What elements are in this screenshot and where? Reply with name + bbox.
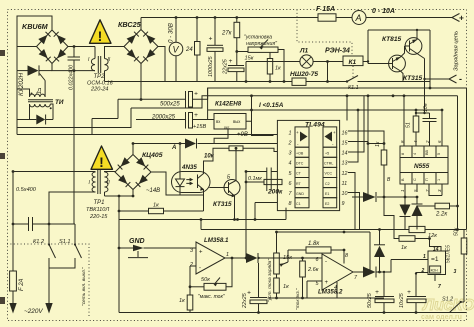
capacitor 2000x25 bbox=[186, 112, 199, 129]
node cap bottom bbox=[73, 69, 76, 72]
resistor 51 bbox=[413, 109, 419, 146]
resistor 10k bbox=[204, 146, 278, 168]
wire mains pole A bbox=[12, 172, 14, 305]
svg-text:6: 6 bbox=[289, 181, 292, 187]
wire L1 node down to shunt rail bbox=[327, 62, 329, 82]
svg-text:+: + bbox=[459, 13, 464, 23]
diode mid right bbox=[363, 192, 376, 202]
wire TI left rail bbox=[16, 71, 18, 135]
svg-text:50к: 50к bbox=[201, 277, 210, 283]
svg-text:КОН: КОН bbox=[431, 269, 439, 273]
svg-text:К142ЕН8: К142ЕН8 bbox=[215, 101, 242, 108]
svg-text:E2: E2 bbox=[325, 202, 329, 206]
resistor 1k opto bbox=[118, 208, 204, 213]
wire KBU6M left AC input bbox=[17, 46, 37, 48]
wire mains pole B vertical bbox=[73, 71, 75, 224]
svg-text:~220V: ~220V bbox=[24, 308, 43, 315]
wire pin7 gnd bbox=[285, 208, 287, 220]
capacitor 500x25 bbox=[186, 91, 199, 108]
IC N555 bbox=[400, 146, 448, 184]
svg-text:+15В: +15В bbox=[193, 124, 206, 130]
svg-text:+: + bbox=[333, 130, 336, 135]
relay K1 bbox=[343, 56, 368, 66]
resistor 1k gate bbox=[384, 197, 431, 241]
svg-text:4: 4 bbox=[413, 153, 417, 155]
svg-text:KBU6M: KBU6M bbox=[22, 22, 49, 31]
minus terminal bbox=[449, 74, 462, 84]
svg-text:16: 16 bbox=[342, 131, 348, 137]
wire KT815 emitter to minus bbox=[425, 59, 450, 114]
wire K1 to base net bbox=[368, 30, 430, 88]
transformer TP2 bbox=[91, 47, 124, 82]
svg-text:10н: 10н bbox=[423, 103, 429, 112]
svg-text:+: + bbox=[194, 91, 198, 98]
svg-text:4N35: 4N35 bbox=[181, 164, 197, 171]
opamp LM358.1 bbox=[118, 242, 246, 274]
svg-text:1к: 1к bbox=[153, 203, 159, 209]
svg-text:22х25: 22х25 bbox=[242, 292, 248, 309]
svg-text:+: + bbox=[375, 289, 379, 296]
wire KBC25 top to rail bbox=[140, 18, 142, 30]
svg-text:+9В: +9В bbox=[237, 132, 248, 138]
svg-text:1к: 1к bbox=[401, 245, 407, 251]
plus terminal bbox=[452, 13, 464, 23]
svg-text:ТР2: ТР2 bbox=[94, 74, 106, 80]
bridge rectifier KBU6M bbox=[37, 30, 69, 64]
transistor KT315 mid bbox=[209, 148, 240, 221]
wire pin14 up bbox=[348, 96, 364, 152]
svg-text:КУ202Н: КУ202Н bbox=[18, 72, 25, 96]
svg-text:TL494: TL494 bbox=[305, 122, 325, 129]
capacitor 1000x25 bbox=[207, 16, 223, 81]
wire N555 pin top left bbox=[403, 96, 405, 146]
svg-text:200к: 200к bbox=[267, 189, 283, 196]
bridge rectifier KC405 bbox=[115, 155, 151, 190]
wire KBU6M top loop bbox=[17, 16, 52, 71]
resistor 27k bbox=[234, 16, 240, 53]
node A dot bbox=[179, 142, 182, 145]
voltmeter V bbox=[169, 16, 183, 81]
wire gate pin14 bbox=[430, 239, 442, 252]
svg-text:3: 3 bbox=[190, 248, 193, 254]
svg-text:"сеть вкл. выкл.": "сеть вкл. выкл." bbox=[81, 267, 87, 306]
svg-text:2.2к: 2.2к bbox=[435, 212, 448, 218]
diode pair up bbox=[412, 197, 423, 230]
wire N555 right top bbox=[441, 110, 443, 146]
wire regulator in bbox=[208, 119, 215, 121]
capacitor 22x25 top bbox=[228, 52, 244, 82]
diode up right bbox=[374, 228, 385, 273]
switch S1.1 bbox=[49, 224, 82, 268]
wire pin16 net bbox=[348, 131, 384, 144]
wire regulator adj bbox=[214, 129, 228, 144]
wire LED cathode down bbox=[179, 187, 181, 195]
switch K1.1 bbox=[346, 76, 358, 83]
wire mains pole B down bbox=[48, 268, 50, 304]
resistor 10k bbox=[0, 0, 1, 1]
svg-text:1к: 1к bbox=[179, 298, 185, 304]
svg-text:LM358.1: LM358.1 bbox=[204, 237, 229, 244]
bottom left rail bbox=[119, 219, 286, 221]
svg-text:V: V bbox=[173, 45, 180, 55]
svg-text:КВС25: КВС25 bbox=[118, 20, 142, 29]
node TP1 top bbox=[12, 170, 15, 173]
diode lm2 out bbox=[353, 260, 391, 278]
svg-text:C1: C1 bbox=[296, 202, 301, 206]
svg-text:сам одел.ru: сам одел.ru bbox=[421, 314, 462, 321]
svg-text:51: 51 bbox=[406, 122, 412, 128]
diode row wire bbox=[352, 196, 417, 198]
wire pin15 net bbox=[348, 142, 384, 144]
wire KBC25 right vertex bbox=[158, 47, 165, 82]
svg-text:C2: C2 bbox=[325, 182, 330, 186]
svg-text:4: 4 bbox=[289, 161, 292, 167]
svg-text:13: 13 bbox=[342, 161, 348, 167]
wire bridge bottom to TP2 primary bbox=[52, 64, 95, 71]
svg-text:F 15А: F 15А bbox=[316, 6, 335, 13]
svg-text:4: 4 bbox=[334, 285, 337, 291]
svg-text:"ток зкз.": "ток зкз." bbox=[295, 288, 301, 310]
resistor 1.8k bbox=[288, 247, 345, 253]
svg-text:11: 11 bbox=[342, 181, 348, 187]
dotted link to relay area bbox=[297, 10, 352, 57]
wire pin2 net bbox=[189, 266, 191, 313]
svg-text:VCC: VCC bbox=[325, 172, 333, 176]
svg-text:8: 8 bbox=[345, 253, 348, 259]
svg-text:220-24: 220-24 bbox=[90, 87, 108, 93]
wire pin5 cap 0.1mk bbox=[246, 168, 277, 192]
svg-text:0.5х400: 0.5х400 bbox=[16, 187, 37, 193]
svg-text:-: - bbox=[199, 266, 201, 272]
svg-text:1: 1 bbox=[423, 254, 426, 260]
svg-text:+: + bbox=[407, 289, 411, 296]
wire gate pin1 bbox=[391, 259, 428, 261]
svg-text:рег.: рег. bbox=[224, 125, 230, 129]
svg-text:1к: 1к bbox=[283, 284, 289, 290]
fuse F2A bbox=[10, 271, 17, 291]
IC TL494 bbox=[277, 120, 339, 210]
svg-text:14: 14 bbox=[342, 151, 348, 157]
wire secondary net bbox=[105, 195, 134, 197]
svg-text:~14В: ~14В bbox=[146, 188, 160, 194]
svg-text:+: + bbox=[199, 250, 203, 256]
svg-text:14: 14 bbox=[433, 247, 439, 253]
arrow mains B bbox=[45, 303, 52, 314]
resistor 1k lm1 bbox=[187, 295, 193, 310]
svg-text:2: 2 bbox=[421, 268, 425, 274]
svg-text:КЦ405: КЦ405 bbox=[142, 152, 163, 159]
svg-text:2.6к: 2.6к bbox=[307, 267, 319, 273]
svg-text:DTC: DTC bbox=[296, 162, 304, 166]
vertical x370 bbox=[369, 232, 371, 272]
switch S1.2 bbox=[450, 301, 465, 313]
svg-text:1: 1 bbox=[437, 179, 441, 181]
wire gate pin2 bbox=[416, 273, 428, 274]
svg-text:2: 2 bbox=[288, 141, 292, 147]
resistor 24 bbox=[195, 16, 201, 81]
vertical x368 bbox=[367, 96, 369, 197]
capacitor 10x25 bbox=[407, 272, 426, 314]
svg-text:10к: 10к bbox=[204, 154, 215, 160]
svg-text:КТ315: КТ315 bbox=[213, 201, 232, 208]
node cap top bbox=[73, 45, 76, 48]
svg-text:CTRL: CTRL bbox=[324, 162, 333, 166]
svg-text:7: 7 bbox=[438, 284, 441, 290]
lamp L1 bbox=[245, 55, 343, 83]
arrow mains A bbox=[9, 303, 16, 314]
wire pin8 bottom bbox=[255, 203, 277, 220]
wire N555 bottom pins bbox=[405, 184, 442, 197]
watermark bbox=[421, 297, 474, 321]
wire common left rail bbox=[17, 134, 277, 136]
svg-text:1000х25: 1000х25 bbox=[208, 55, 214, 77]
svg-text:КТ815: КТ815 bbox=[382, 36, 401, 43]
ammeter A bbox=[352, 11, 366, 25]
svg-text:8: 8 bbox=[401, 153, 405, 155]
svg-text:15к: 15к bbox=[283, 255, 292, 261]
svg-text:N555: N555 bbox=[414, 163, 430, 170]
bottom rail bbox=[119, 312, 466, 314]
svg-text:1к: 1к bbox=[275, 66, 281, 72]
capacitor 10n bbox=[415, 112, 437, 146]
potentiometer 15k charge bbox=[274, 232, 288, 274]
svg-text:+5: +5 bbox=[325, 152, 329, 156]
svg-text:1: 1 bbox=[289, 131, 292, 137]
wire pin10 down bbox=[348, 193, 360, 230]
svg-text:!: ! bbox=[99, 154, 104, 170]
resistor 1k vert bbox=[267, 52, 272, 83]
wire LED anode up bbox=[179, 144, 181, 180]
wire opto emitter to base bbox=[203, 195, 205, 211]
resistor 2.2k bbox=[417, 203, 459, 209]
svg-text:ВВ: ВВ bbox=[425, 149, 429, 155]
wire rail left drop bbox=[92, 99, 118, 134]
wire KC405 right bbox=[151, 172, 204, 195]
bridge rectifier KBC25 bbox=[124, 30, 158, 64]
wire pin13 up bbox=[348, 110, 358, 162]
svg-text:ТВК110Л: ТВК110Л bbox=[86, 207, 109, 213]
svg-text:=1: =1 bbox=[431, 256, 439, 263]
wire pin16 to 1k bbox=[344, 130, 346, 132]
switch K1.2 bbox=[48, 224, 56, 268]
svg-text:3: 3 bbox=[289, 151, 292, 157]
warning triangle 1 bbox=[90, 20, 112, 44]
svg-text:А: А bbox=[171, 145, 176, 151]
svg-text:-: - bbox=[325, 259, 327, 265]
resistor 12k bbox=[409, 226, 425, 232]
resistor 50k right bbox=[458, 230, 467, 303]
potentiometer 15k bbox=[237, 40, 286, 83]
wire KBC25 bottom down bbox=[140, 64, 142, 100]
svg-text:561ЛЕ5: 561ЛЕ5 bbox=[446, 245, 452, 263]
dotted switch enclosure bbox=[7, 244, 89, 318]
diode lm1 out bbox=[246, 253, 322, 263]
svg-text:220-15: 220-15 bbox=[89, 214, 108, 220]
transformer TP1 bbox=[13, 170, 115, 224]
feedback vertical bbox=[245, 172, 247, 259]
svg-text:5: 5 bbox=[437, 153, 441, 155]
wire top link bbox=[277, 231, 371, 233]
svg-text:50х25: 50х25 bbox=[367, 292, 373, 308]
resistor 1k right of TL494 bbox=[381, 144, 387, 198]
svg-text:E1: E1 bbox=[325, 192, 329, 196]
svg-text:1.8к: 1.8к bbox=[308, 241, 320, 247]
diode node A bbox=[185, 139, 197, 149]
rail B dots bbox=[250, 94, 253, 97]
svg-text:I <0.15А: I <0.15А bbox=[259, 102, 284, 109]
svg-text:0 - 30В: 0 - 30В bbox=[168, 23, 175, 43]
potentiometer 50k bbox=[190, 257, 233, 291]
svg-text:15: 15 bbox=[342, 141, 349, 147]
node A wire bbox=[133, 143, 277, 145]
svg-text:"уст. тока заряда": "уст. тока заряда" bbox=[267, 259, 273, 302]
svg-text:GND: GND bbox=[129, 238, 145, 245]
svg-text:10: 10 bbox=[342, 191, 348, 197]
shunt NSh20-75 bbox=[292, 78, 306, 85]
svg-text:+ОВ: +ОВ bbox=[296, 152, 304, 156]
svg-text:LM358.2: LM358.2 bbox=[318, 289, 343, 296]
svg-text:КТ315: КТ315 bbox=[403, 75, 422, 82]
svg-text:вых: вых bbox=[233, 119, 241, 124]
svg-text:!: ! bbox=[98, 28, 103, 44]
svg-text:Л1: Л1 bbox=[299, 48, 309, 55]
right vertical rail bbox=[457, 96, 459, 230]
resistor 200k bbox=[246, 179, 282, 184]
resistor 2.6k bbox=[300, 257, 306, 300]
wire KC405 top bbox=[132, 144, 134, 155]
svg-text:А: А bbox=[355, 13, 362, 23]
wire pin12 up bbox=[348, 173, 355, 230]
minus rail bbox=[105, 81, 431, 83]
diode pair down bbox=[400, 197, 411, 230]
svg-text:0 - 10А: 0 - 10А bbox=[372, 8, 395, 15]
node KBC25 bottom bbox=[140, 98, 143, 101]
node L1-K1 bbox=[326, 60, 329, 63]
svg-text:НШ20-75: НШ20-75 bbox=[290, 71, 318, 78]
svg-text:24: 24 bbox=[185, 47, 193, 53]
wire lower loop bbox=[17, 108, 131, 128]
svg-text:8: 8 bbox=[289, 201, 292, 207]
svg-text:CT: CT bbox=[296, 172, 302, 176]
fuse F15A bbox=[318, 14, 336, 21]
svg-text:500х25: 500х25 bbox=[160, 102, 180, 108]
wire rail to TL494 top bbox=[346, 96, 348, 121]
warning triangle 2 bbox=[91, 146, 113, 170]
svg-text:1: 1 bbox=[226, 252, 229, 258]
wire left mid vertical bbox=[118, 196, 120, 313]
capacitor 50x25 bbox=[375, 271, 394, 314]
svg-text:RT: RT bbox=[296, 182, 302, 186]
svg-text:S1.2: S1.2 bbox=[442, 297, 453, 303]
svg-text:15к: 15к bbox=[245, 56, 254, 62]
svg-text:+: + bbox=[229, 58, 233, 65]
transistor KT315 top bbox=[368, 46, 405, 82]
main top rail bbox=[141, 17, 452, 19]
thyristor KY202H bbox=[17, 65, 52, 80]
svg-text:ТР1: ТР1 bbox=[94, 200, 105, 206]
svg-text:27к: 27к bbox=[221, 31, 233, 37]
opamp LM358.2 bbox=[307, 250, 353, 298]
svg-text:К1: К1 bbox=[349, 59, 357, 66]
capacitor 22x25 bottom bbox=[247, 263, 267, 313]
logic gate 561LE5 bbox=[428, 251, 446, 275]
nine volt rail bbox=[208, 109, 442, 111]
svg-text:50к: 50к bbox=[454, 227, 460, 236]
svg-text:С: С bbox=[413, 178, 417, 181]
capacitor 0.022x400 bbox=[68, 47, 81, 71]
return rail bbox=[131, 96, 458, 108]
dotted link K1 to K1.1 bbox=[352, 66, 354, 78]
svg-text:12: 12 bbox=[342, 171, 348, 177]
regulator K142EN8 bbox=[214, 114, 246, 130]
svg-text:+: + bbox=[325, 280, 329, 286]
svg-text:6: 6 bbox=[316, 257, 319, 263]
transistor KT815 bbox=[405, 30, 425, 59]
svg-text:"макс. ток": "макс. ток" bbox=[198, 294, 225, 300]
svg-text:ТИ: ТИ bbox=[55, 99, 64, 106]
svg-text:22х25: 22х25 bbox=[223, 58, 229, 75]
wire gate pin7 down bbox=[434, 275, 436, 282]
svg-text:Зарядная цепь: Зарядная цепь bbox=[454, 31, 460, 71]
svg-text:GND: GND bbox=[296, 192, 304, 196]
svg-text:+: + bbox=[194, 112, 198, 119]
wire regulator out bbox=[246, 96, 274, 136]
svg-text:РЭН-34: РЭН-34 bbox=[325, 48, 350, 55]
long mid rail bbox=[201, 220, 467, 230]
svg-text:3: 3 bbox=[454, 269, 457, 275]
svg-text:-: - bbox=[459, 74, 462, 84]
capacitor 0.5x400 bbox=[12, 217, 51, 231]
optocoupler 4N35 bbox=[172, 168, 211, 195]
rail 2000x25 bbox=[136, 119, 214, 121]
svg-text:+: + bbox=[209, 36, 213, 43]
svg-text:10х25: 10х25 bbox=[399, 292, 405, 308]
diode D on TI loop bbox=[17, 104, 53, 125]
pulse transformer TI bbox=[17, 81, 53, 110]
svg-text:F 2А: F 2А bbox=[19, 278, 25, 291]
GND symbol bbox=[119, 245, 148, 258]
wire KBU6M right vertex to TP2 bbox=[68, 46, 95, 48]
mid bottom rail bbox=[268, 297, 385, 299]
svg-text:1к: 1к bbox=[375, 141, 381, 147]
resistor 1k charge bbox=[274, 274, 280, 299]
svg-text:+: + bbox=[296, 130, 299, 135]
wire KC405 bottom bbox=[132, 190, 134, 197]
plus DC rail bbox=[118, 88, 467, 230]
svg-text:П: П bbox=[425, 178, 429, 181]
svg-text:9: 9 bbox=[342, 201, 345, 207]
svg-text:Д: Д bbox=[36, 89, 42, 95]
svg-text:0.1мк: 0.1мк bbox=[248, 176, 262, 182]
